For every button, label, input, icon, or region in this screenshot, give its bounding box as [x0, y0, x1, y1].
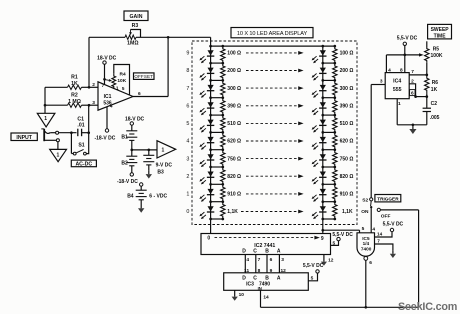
svg-text:6: 6	[270, 257, 273, 263]
IC3 7490 counter	[224, 273, 309, 291]
IC3 pin10 ground	[234, 290, 236, 293]
label SWEEP TIME	[428, 24, 452, 39]
jumper wire right row 2	[323, 183, 335, 185]
svg-text:AC-DC: AC-DC	[75, 161, 92, 167]
wire feedback vertical	[88, 37, 90, 87]
svg-text:2: 2	[186, 174, 189, 180]
IC2 7441 decoder	[201, 234, 331, 255]
svg-text:7400: 7400	[361, 246, 372, 251]
switch S2 trigger	[370, 85, 372, 198]
LED right column row 0	[320, 206, 326, 211]
switch S2 OFF contact	[377, 208, 380, 211]
wire LED col to IC5 pin5	[321, 229, 324, 232]
svg-text:8: 8	[400, 67, 403, 73]
svg-text:IC4: IC4	[393, 79, 401, 85]
IC4 pin7 wire	[409, 74, 427, 76]
LED L8 left column	[208, 68, 214, 73]
svg-text:5: 5	[332, 240, 335, 246]
svg-text:B3: B3	[157, 169, 164, 175]
svg-text:R4: R4	[120, 71, 126, 77]
svg-text:1: 1	[116, 85, 119, 90]
LED right column row 2	[320, 172, 326, 177]
LED L0 left column	[208, 206, 214, 211]
resistor 300 Ω right column	[333, 80, 337, 97]
svg-text:2: 2	[92, 82, 95, 88]
buffer triangle 1 (lower)	[50, 149, 67, 161]
svg-text:7: 7	[186, 86, 189, 92]
svg-text:D: D	[242, 248, 246, 254]
svg-text:300 Ω: 300 Ω	[340, 86, 354, 92]
terminal -18-V DC pin4	[106, 107, 108, 129]
svg-text:4: 4	[372, 226, 375, 232]
svg-text:820 Ω: 820 Ω	[227, 174, 241, 180]
capacitor C2 .005	[426, 97, 428, 108]
jumper wire left row 3	[211, 166, 223, 168]
svg-text:1: 1	[186, 192, 189, 198]
svg-text:5,5-V DC: 5,5-V DC	[397, 36, 418, 42]
wires IC2 to IC3 BCD lines	[244, 255, 246, 273]
dashed repeat arrow row 0	[241, 211, 298, 213]
wire input node vertical	[44, 87, 46, 113]
jumper wire right row 8	[323, 79, 335, 81]
svg-text:.01: .01	[77, 123, 84, 129]
svg-text:14: 14	[263, 294, 269, 300]
jumper wire right row 3	[323, 166, 335, 168]
jumper wire left row 0	[211, 218, 223, 220]
svg-text:620 Ω: 620 Ω	[227, 139, 241, 145]
svg-text:18-V DC: 18-V DC	[125, 116, 145, 122]
jumper wire right row 4	[323, 149, 335, 151]
jumper wire right row 1	[323, 201, 335, 203]
svg-text:SWEEP: SWEEP	[431, 27, 450, 33]
node feedback junction	[167, 36, 170, 39]
svg-text:18-V DC: 18-V DC	[97, 55, 117, 61]
svg-text:4: 4	[110, 104, 113, 110]
node C1 right	[87, 131, 90, 134]
LED right column row 5	[320, 120, 326, 125]
label OFFSET	[134, 73, 155, 80]
svg-text:5,5-V DC: 5,5-V DC	[303, 263, 324, 269]
IC3 pin14 clock input wire	[260, 290, 262, 307]
svg-text:IC1: IC1	[104, 94, 112, 100]
jumper wire left row 9	[211, 62, 223, 64]
svg-text:1: 1	[162, 147, 165, 153]
svg-text:1K: 1K	[431, 87, 438, 93]
resistor 620 Ω right column	[333, 132, 337, 149]
jumper wire right row 6	[323, 114, 335, 116]
resistor 1,1K right column	[333, 202, 337, 219]
LED L4 left column	[208, 137, 214, 142]
svg-text:R6: R6	[432, 80, 439, 86]
op-amp IC1 536	[98, 82, 133, 110]
IC2 pin5 5.5V terminal	[331, 241, 339, 246]
svg-text:5,5-V DC: 5,5-V DC	[383, 222, 404, 228]
svg-text:7: 7	[377, 239, 380, 244]
label AC-DC	[71, 160, 96, 167]
svg-text:1,1K: 1,1K	[342, 209, 353, 215]
IC4 555 timer	[385, 73, 409, 99]
node pin2	[88, 86, 91, 89]
IC5 pin14 5.5V terminal	[375, 232, 393, 237]
svg-text:4: 4	[186, 139, 189, 145]
jumper wire right row 9	[323, 62, 335, 64]
svg-text:390 Ω: 390 Ω	[227, 104, 241, 110]
svg-text:B2: B2	[121, 160, 128, 166]
svg-text:300 Ω: 300 Ω	[227, 86, 241, 92]
wire IC1 output	[133, 96, 168, 98]
resistor 820 Ω left column	[221, 167, 225, 184]
svg-text:5: 5	[311, 275, 314, 281]
svg-text:820 Ω: 820 Ω	[340, 174, 354, 180]
svg-text:0: 0	[186, 209, 189, 215]
dashed repeat arrow row 6	[246, 105, 298, 107]
svg-text:-18-V DC: -18-V DC	[117, 179, 138, 185]
svg-text:S1: S1	[78, 142, 84, 148]
svg-text:510 Ω: 510 Ω	[340, 121, 354, 127]
svg-text:IN: IN	[258, 286, 262, 291]
svg-text:C2: C2	[431, 101, 438, 107]
svg-text:910 Ω: 910 Ω	[340, 192, 354, 198]
IC4 pin2 pin6 wires	[409, 84, 415, 97]
wire OFF to return	[380, 209, 418, 211]
LED right column row 9	[320, 50, 326, 55]
svg-text:R2: R2	[71, 93, 78, 99]
svg-text:100 Ω: 100 Ω	[340, 51, 354, 57]
resistor 200 Ω right column	[333, 63, 337, 80]
LED L3 left column	[208, 154, 214, 159]
svg-text:100K: 100K	[431, 53, 443, 59]
jumper wire right row 0	[323, 218, 335, 220]
LED L1 left column	[208, 189, 214, 194]
svg-text:6: 6	[369, 260, 372, 266]
LED right column row 4	[320, 137, 326, 142]
svg-text:10: 10	[239, 292, 245, 298]
LED L2 left column	[208, 172, 214, 177]
svg-text:TRIGGER: TRIGGER	[377, 196, 399, 201]
wire 555 Vcc rail pins 4 8	[385, 55, 387, 73]
resistor 620 Ω left column	[221, 132, 225, 149]
terminal 5.5-V DC 555	[403, 42, 406, 45]
svg-text:INPUT: INPUT	[16, 135, 32, 141]
buffer triangle 1 (right)	[157, 141, 176, 158]
terminal -18-V DC B2	[130, 173, 133, 176]
node battery junction	[130, 149, 133, 152]
jack J1	[43, 129, 45, 141]
svg-text:10K: 10K	[117, 78, 126, 84]
ground B3	[148, 170, 150, 174]
svg-text:IC3: IC3	[246, 282, 254, 288]
svg-text:TIME: TIME	[434, 33, 447, 39]
svg-text:9: 9	[186, 51, 189, 57]
label TRIGGER	[375, 195, 401, 202]
LED display dashed border	[192, 41, 357, 225]
svg-text:6: 6	[411, 91, 414, 97]
IC5 pin7 ground	[375, 244, 393, 250]
svg-text:510 Ω: 510 Ω	[227, 121, 241, 127]
LED right column row 3	[320, 154, 326, 159]
wire clock bottom rail	[261, 306, 419, 308]
svg-text:9-V DC: 9-V DC	[156, 162, 173, 168]
svg-text:ON: ON	[361, 209, 369, 215]
jumper wire left row 2	[211, 183, 223, 185]
svg-text:2: 2	[411, 78, 414, 84]
LED L9 left column	[208, 50, 214, 55]
resistor 510 Ω left column	[221, 115, 225, 132]
wire entry to LED columns	[210, 37, 212, 46]
svg-text:6 - VDC: 6 - VDC	[149, 193, 167, 199]
resistor 910 Ω left column	[221, 184, 225, 201]
resistor 1,1K left column	[221, 202, 225, 219]
dashed repeat arrow row 7	[246, 87, 298, 89]
svg-text:R1: R1	[71, 75, 78, 81]
LED L7 left column	[208, 85, 214, 90]
node pin3	[88, 104, 91, 107]
wire jack tip to C1	[59, 132, 77, 134]
resistor R6 1K	[425, 75, 429, 94]
svg-text:14: 14	[377, 232, 383, 237]
svg-text:12: 12	[328, 258, 334, 264]
svg-text:7: 7	[258, 257, 261, 263]
jumper wire left row 1	[211, 201, 223, 203]
jumper wire left row 4	[211, 149, 223, 151]
svg-text:R5: R5	[433, 46, 440, 52]
IC5 pin6 output wire	[365, 260, 367, 307]
resistor 750 Ω right column	[333, 150, 337, 167]
jumper wire left row 7	[211, 97, 223, 99]
svg-text:1: 1	[44, 116, 47, 122]
svg-text:3: 3	[281, 257, 284, 263]
jumper wire left row 5	[211, 131, 223, 133]
resistor 390 Ω right column	[333, 98, 337, 115]
svg-text:1,1K: 1,1K	[227, 209, 238, 215]
dashed repeat arrow row 8	[246, 70, 298, 72]
svg-text:-18-V DC: -18-V DC	[94, 136, 115, 142]
svg-text:1MΩ: 1MΩ	[127, 41, 138, 47]
battery B3 9-V DC	[148, 150, 150, 155]
label INPUT	[11, 133, 37, 141]
potentiometer R4 10K offset	[105, 79, 110, 82]
dashed repeat arrow row 4	[246, 140, 298, 142]
resistor 200 Ω left column	[221, 63, 225, 80]
LED right column row 7	[320, 85, 326, 90]
wire C1 node to pin3	[88, 105, 90, 133]
svg-text:6: 6	[186, 104, 189, 110]
ground 555	[412, 125, 414, 129]
resistor 100 Ω right column	[333, 46, 337, 63]
svg-text:B4: B4	[127, 194, 134, 200]
wire top rail	[211, 45, 335, 47]
svg-text:910 Ω: 910 Ω	[227, 192, 241, 198]
resistor 910 Ω right column	[333, 184, 337, 201]
LED right column row 6	[320, 102, 326, 107]
svg-text:5: 5	[122, 86, 125, 91]
svg-text:200 Ω: 200 Ω	[227, 68, 241, 74]
svg-text:1/4: 1/4	[363, 241, 370, 246]
ground B4	[140, 205, 142, 209]
jack ring to buffer	[44, 139, 56, 141]
buffer triangle 1 (upper)	[37, 113, 55, 127]
resistor 300 Ω left column	[221, 80, 225, 97]
svg-text:C1: C1	[77, 117, 84, 123]
svg-text:5,5-V DC: 5,5-V DC	[332, 232, 353, 238]
svg-text:7: 7	[411, 69, 414, 75]
svg-text:100 Ω: 100 Ω	[227, 51, 241, 57]
svg-text:OFFSET: OFFSET	[134, 74, 153, 79]
svg-text:5: 5	[362, 226, 365, 232]
dashed repeat arrow row 2	[246, 175, 298, 177]
svg-text:R3: R3	[132, 23, 139, 29]
dashed repeat arrow row 3	[246, 158, 298, 160]
svg-text:SeekIC.com: SeekIC.com	[398, 301, 457, 313]
battery B4 6-VDC	[140, 183, 143, 186]
svg-text:3: 3	[186, 156, 189, 162]
svg-text:1: 1	[57, 152, 60, 158]
LED L6 left column	[208, 102, 214, 107]
svg-text:390 Ω: 390 Ω	[340, 104, 354, 110]
svg-text:750 Ω: 750 Ω	[227, 156, 241, 162]
potentiometer R5 100K sweep	[426, 41, 428, 47]
svg-text:555: 555	[393, 87, 402, 93]
IC2 pin12 ground	[323, 255, 325, 259]
svg-text:3: 3	[92, 100, 95, 106]
svg-text:.005: .005	[430, 115, 440, 121]
svg-text:B: B	[265, 248, 269, 254]
svg-text:8: 8	[186, 68, 189, 74]
label 10 X 10 LED AREA DISPLAY	[231, 28, 313, 38]
resistor 510 Ω right column	[333, 115, 337, 132]
NAND gate IC5 1/4 7400	[357, 233, 375, 256]
svg-text:1: 1	[398, 101, 401, 107]
svg-text:C: C	[253, 248, 257, 254]
svg-text:0: 0	[207, 235, 210, 241]
resistor 750 Ω left column	[221, 150, 225, 167]
resistor 390 Ω left column	[221, 98, 225, 115]
wire left LED column	[210, 46, 212, 233]
LED L5 left column	[208, 120, 214, 125]
dashed repeat arrow row 5	[246, 122, 298, 124]
svg-text:A: A	[277, 276, 281, 282]
svg-text:750 Ω: 750 Ω	[340, 156, 354, 162]
svg-text:S2: S2	[362, 197, 368, 203]
svg-text:A: A	[277, 248, 281, 254]
svg-text:3: 3	[380, 78, 383, 84]
IC3 pin5 5.5V terminal	[308, 273, 317, 281]
jumper wire right row 7	[323, 97, 335, 99]
svg-text:5: 5	[186, 121, 189, 127]
jumper wire left row 8	[211, 79, 223, 81]
svg-text:620 Ω: 620 Ω	[340, 139, 354, 145]
wire right LED column	[322, 46, 324, 233]
wire output rail to LED display	[168, 36, 211, 38]
wire trigger OFF return	[418, 210, 420, 307]
svg-text:10 X 10 LED AREA DISPLAY: 10 X 10 LED AREA DISPLAY	[237, 31, 308, 37]
resistor 100 Ω left column	[221, 46, 225, 63]
svg-text:200 Ω: 200 Ω	[340, 68, 354, 74]
svg-text:9: 9	[321, 236, 324, 242]
svg-text:4: 4	[388, 67, 391, 73]
LED right column row 8	[320, 68, 326, 73]
jumper wire right row 5	[323, 131, 335, 133]
jumper wire left row 6	[211, 114, 223, 116]
dashed repeat arrow row 1	[246, 193, 298, 195]
label GAIN	[124, 11, 148, 21]
resistor 820 Ω right column	[333, 167, 337, 184]
svg-text:4: 4	[246, 257, 249, 263]
LED right column row 1	[320, 189, 326, 194]
svg-text:GAIN: GAIN	[130, 14, 143, 20]
svg-text:OFF: OFF	[381, 214, 391, 220]
dashed repeat arrow row 9	[246, 52, 298, 54]
